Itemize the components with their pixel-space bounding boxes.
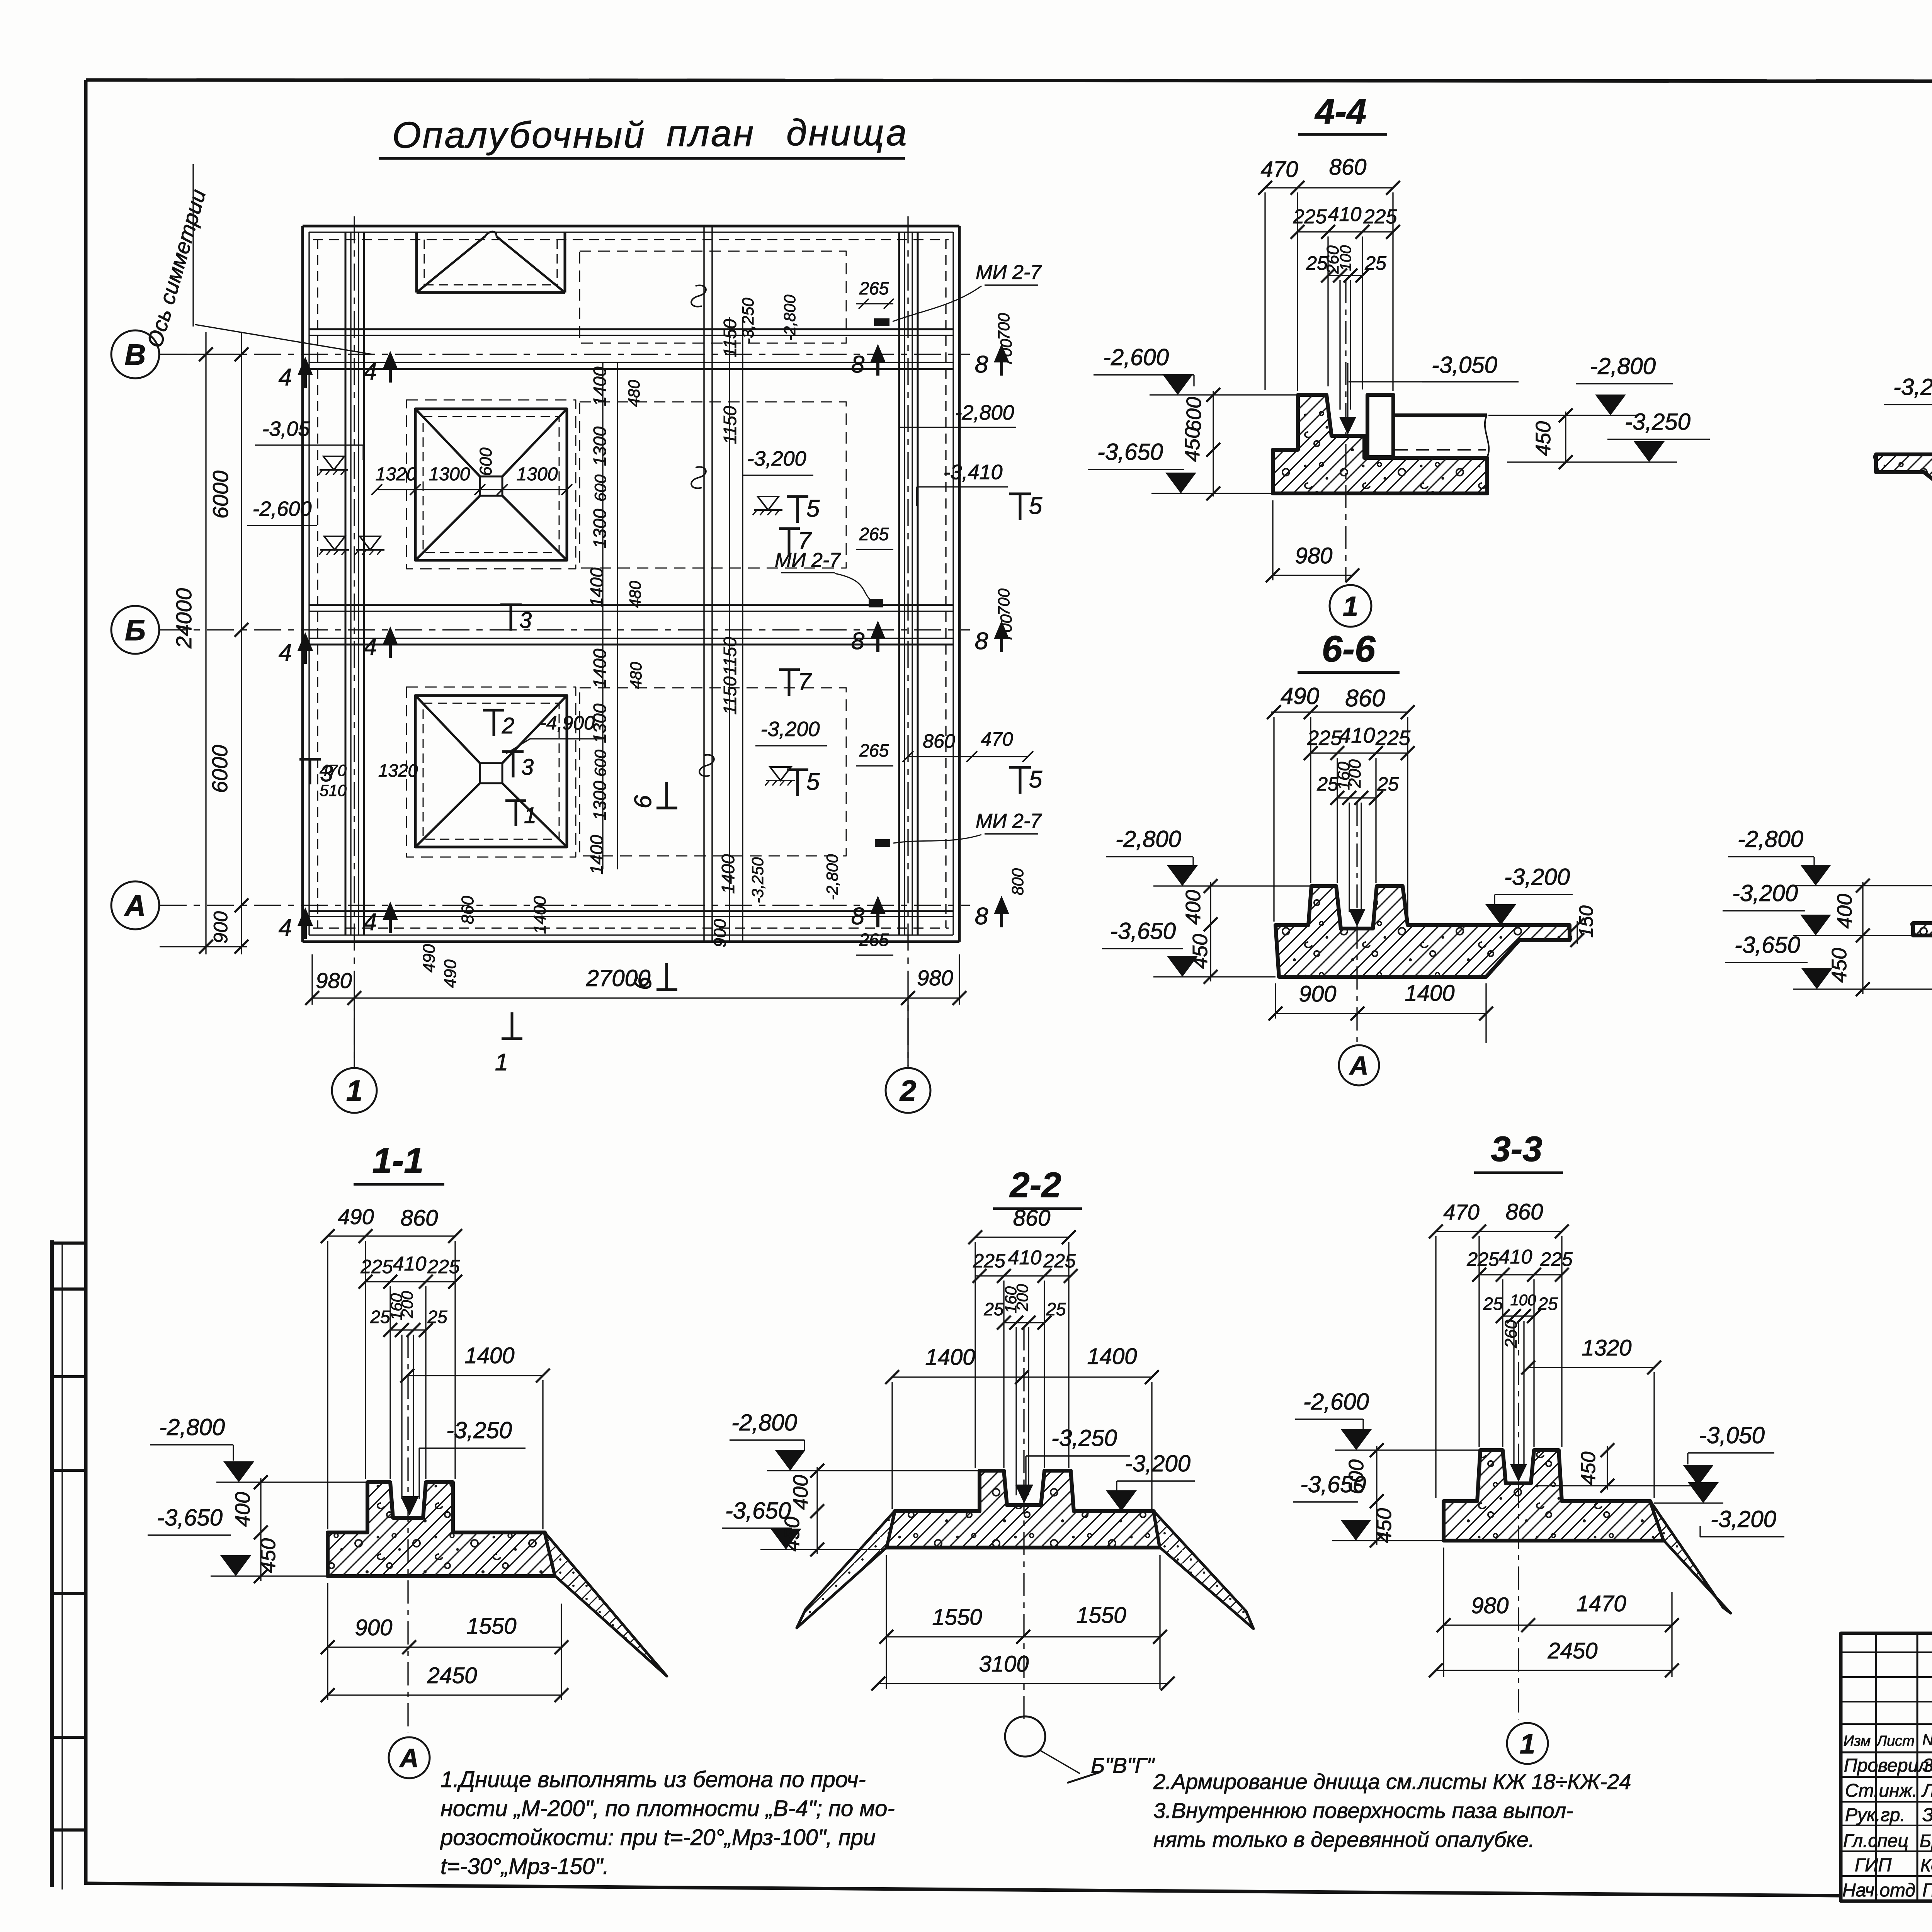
sheet frame — [86, 80, 1932, 82]
svg-text:4: 4 — [279, 915, 292, 941]
svg-text:Рук.гр.: Рук.гр. — [1845, 1805, 1905, 1825]
svg-text:Зантберг: Зантберг — [1922, 1755, 1932, 1776]
svg-text:410: 410 — [1328, 203, 1362, 226]
svg-text:-3,250: -3,250 — [1625, 409, 1690, 435]
section 4-4 precast slab right — [1393, 413, 1487, 417]
svg-text:4: 4 — [364, 634, 377, 660]
section 2-2 axis circle with leader БВГ — [1005, 1716, 1045, 1757]
svg-text:490: 490 — [1281, 683, 1319, 709]
svg-text:-3,410: -3,410 — [943, 461, 1002, 484]
section 3-3 dim 25/100/260/25 — [1503, 1315, 1534, 1316]
svg-text:Опалубочный: Опалубочный — [392, 114, 646, 156]
svg-text:8: 8 — [851, 628, 865, 655]
svg-text:25: 25 — [1377, 773, 1399, 795]
svg-text:400: 400 — [1833, 894, 1856, 929]
plan wall on axis Б — [309, 604, 953, 606]
svg-text:200: 200 — [398, 1291, 416, 1318]
axis circle В — [111, 330, 159, 378]
plan dimension row 1320 1300 600 1300 — [377, 489, 567, 490]
svg-text:Ст.инж.: Ст.инж. — [1845, 1781, 1917, 1801]
svg-text:1320: 1320 — [1582, 1335, 1631, 1361]
section 6-6 bottom dim 900/1400 — [1276, 1013, 1486, 1014]
section 2-2 right apron band — [1154, 1511, 1253, 1629]
plan vertical break line — [703, 226, 705, 942]
svg-text:700: 700 — [995, 588, 1013, 616]
svg-text:225: 225 — [1540, 1248, 1573, 1270]
section 2-2 extension lines — [975, 1242, 976, 1468]
svg-text:4-4: 4-4 — [1315, 92, 1367, 131]
plan outer wall left — [301, 226, 304, 942]
section 3-3 right apron band — [1650, 1501, 1731, 1613]
section 3-3 dim 225/410/225 — [1479, 1274, 1562, 1275]
svg-text:980: 980 — [1295, 543, 1333, 568]
svg-text:6-6: 6-6 — [1322, 628, 1376, 670]
svg-text:225: 225 — [1363, 206, 1398, 228]
svg-text:600: 600 — [591, 474, 609, 502]
section mark 4 at axis Б right — [389, 631, 392, 658]
svg-text:ГИП: ГИП — [1855, 1855, 1891, 1876]
svg-text:1400: 1400 — [464, 1343, 514, 1368]
svg-text:1400: 1400 — [587, 835, 607, 874]
svg-text:6: 6 — [630, 976, 656, 990]
section 4-4 axis circle 1 — [1330, 585, 1371, 627]
section 1-1 left dims 400/450 — [260, 1478, 261, 1581]
svg-text:Гл.спец: Гл.спец — [1843, 1831, 1908, 1851]
section 1-1 dim 25/160/200/25 — [390, 1329, 426, 1330]
svg-text:470: 470 — [981, 728, 1013, 750]
svg-text:МИ 2-7: МИ 2-7 — [976, 261, 1042, 284]
section 4-4 dim 25/260/100/25 — [1328, 275, 1362, 276]
svg-text:7: 7 — [798, 527, 812, 554]
svg-text:4: 4 — [364, 358, 377, 385]
axis circle 2 — [886, 1068, 930, 1113]
svg-text:-2,600: -2,600 — [1103, 344, 1169, 370]
svg-text:900: 900 — [355, 1615, 393, 1640]
section 4-4 dim 225/410/225 — [1298, 231, 1393, 232]
svg-text:450: 450 — [1372, 1508, 1396, 1543]
svg-text:1-1: 1-1 — [372, 1141, 424, 1180]
svg-text:-3,200: -3,200 — [1893, 374, 1932, 400]
section 6-6 dim 490/860 — [1271, 711, 1408, 713]
svg-text:-3,05: -3,05 — [262, 417, 310, 440]
axis 1 line — [354, 216, 355, 1066]
plan wall near axis А — [309, 910, 953, 912]
svg-text:А: А — [124, 889, 146, 922]
section 6-6 concrete hatched — [1276, 886, 1570, 977]
svg-text:490: 490 — [338, 1204, 374, 1229]
svg-text:1400: 1400 — [590, 366, 610, 406]
svg-text:1300: 1300 — [590, 426, 610, 466]
plan outer wall top — [303, 225, 959, 228]
section 6-6 left dims 400/450 — [1210, 882, 1211, 981]
section 5-5 concrete hatched — [1876, 403, 1932, 492]
svg-text:2450: 2450 — [1547, 1638, 1597, 1663]
svg-text:860: 860 — [1013, 1206, 1051, 1231]
svg-text:-2,600: -2,600 — [1303, 1389, 1369, 1415]
svg-text:-4,900: -4,900 — [540, 712, 595, 734]
svg-text:4: 4 — [279, 364, 292, 391]
section 1-1 bottom dim 2450 — [328, 1694, 561, 1696]
plan bottom dimension 980/27000/980 — [312, 997, 959, 998]
svg-text:25: 25 — [1483, 1294, 1503, 1314]
axis Б line — [160, 629, 970, 630]
svg-text:860: 860 — [458, 896, 477, 924]
section 2-2 left dims 400/450 — [816, 1467, 818, 1554]
svg-text:N документа: N документа — [1922, 1731, 1932, 1748]
section 3-3 concrete hatched — [1444, 1450, 1664, 1541]
svg-text:8: 8 — [851, 351, 865, 378]
section mark 8 marks right side — [876, 349, 879, 376]
svg-text:Б: Б — [125, 614, 146, 647]
svg-text:-2,800: -2,800 — [781, 294, 799, 341]
section mark 3 and 1 2 at pits — [299, 758, 321, 761]
svg-text:-3,050: -3,050 — [1432, 352, 1497, 378]
section 6-6 extension lines — [1273, 717, 1274, 922]
section 4-4 concrete footing hatched — [1273, 395, 1487, 493]
svg-text:Козловская: Козловская — [1920, 1855, 1932, 1875]
section 6-6 groove arrow — [1349, 909, 1366, 927]
svg-text:1: 1 — [346, 1075, 362, 1107]
svg-text:480: 480 — [626, 580, 644, 608]
svg-text:3: 3 — [521, 755, 534, 780]
plan ground mark at -3,05 — [323, 456, 344, 470]
svg-text:900: 900 — [711, 919, 730, 947]
svg-text:Изм: Изм — [1844, 1733, 1871, 1749]
section 2-2 centerline — [1023, 1327, 1024, 1721]
svg-text:900: 900 — [210, 911, 231, 944]
svg-text:1400: 1400 — [718, 854, 738, 894]
svg-text:2.Армирование днища см.листы К: 2.Армирование днища см.листы КЖ 18÷КЖ-24 — [1153, 1769, 1631, 1794]
section 3-3 extension lines — [1435, 1236, 1436, 1498]
svg-text:1400: 1400 — [587, 567, 607, 607]
svg-text:600: 600 — [476, 447, 495, 476]
section 7-7 left dims 400/450 — [1862, 882, 1863, 994]
svg-text:1300: 1300 — [517, 464, 558, 485]
svg-text:410: 410 — [1499, 1246, 1532, 1268]
svg-text:25: 25 — [427, 1307, 447, 1327]
section 1-1 centerline — [407, 1335, 408, 1733]
section 1-1 axis circle А — [389, 1737, 430, 1778]
svg-text:-2,800: -2,800 — [1116, 826, 1181, 852]
section 3-3 axis circle 1 — [1507, 1723, 1548, 1764]
svg-text:25: 25 — [1537, 1294, 1558, 1314]
svg-text:1300: 1300 — [590, 509, 610, 548]
svg-text:4: 4 — [364, 909, 377, 935]
svg-text:1320: 1320 — [378, 760, 418, 781]
svg-text:490: 490 — [420, 944, 439, 973]
svg-text:розостойкости: при t=-20°„Мрз-: розостойкости: при t=-20°„Мрз-100", при — [440, 1825, 876, 1850]
title block header row line — [1841, 1752, 1932, 1753]
svg-text:490: 490 — [441, 959, 460, 988]
svg-text:1: 1 — [1343, 591, 1358, 622]
section 3-3 left dims 600/450 — [1376, 1446, 1377, 1545]
title block vertical lines left part — [1875, 1633, 1877, 1901]
section 4-4 right dim 450 — [1565, 412, 1566, 462]
svg-text:-2,600: -2,600 — [252, 497, 311, 520]
svg-text:1470: 1470 — [1576, 1591, 1626, 1616]
svg-text:860: 860 — [1345, 685, 1385, 712]
svg-text:-3,250: -3,250 — [1051, 1425, 1117, 1451]
section mark 4 at axis Б left — [304, 637, 307, 664]
svg-text:5: 5 — [1029, 493, 1043, 519]
section 2-2 groove arrow — [1015, 1485, 1032, 1503]
section mark 5 marks — [787, 495, 808, 498]
svg-text:265: 265 — [859, 930, 889, 950]
svg-text:25: 25 — [1046, 1299, 1066, 1319]
svg-text:днища: днища — [786, 112, 908, 153]
svg-text:А: А — [399, 1743, 418, 1773]
svg-text:7: 7 — [798, 668, 812, 695]
section mark 4 at axis В right of wall 1 — [389, 355, 392, 383]
section 4-4 extension lines — [1264, 192, 1265, 390]
section mark 6 marks — [656, 807, 677, 810]
svg-text:В: В — [125, 338, 146, 371]
svg-text:нять только в деревянной опалу: нять только в деревянной опалубке. — [1153, 1827, 1534, 1852]
svg-text:265: 265 — [859, 524, 889, 544]
svg-text:5: 5 — [806, 495, 820, 522]
section 6-6 dim 25/160/200/25 — [1337, 797, 1376, 798]
svg-text:Проверил: Проверил — [1844, 1755, 1929, 1776]
svg-text:3100: 3100 — [979, 1651, 1029, 1677]
flat pit dashed outline middle right — [580, 402, 846, 568]
left margin fold marks — [50, 1240, 54, 1887]
axis В line — [160, 354, 970, 355]
svg-text:план: план — [667, 113, 755, 154]
svg-text:8: 8 — [975, 628, 988, 655]
axis circle 1 — [332, 1068, 377, 1113]
svg-text:470: 470 — [1443, 1200, 1479, 1224]
svg-text:Нач.отд: Нач.отд — [1842, 1880, 1915, 1901]
svg-text:1400: 1400 — [590, 648, 610, 688]
section 2-2 bottom dim 3100 — [878, 1683, 1168, 1684]
axis 2 line — [907, 216, 908, 1066]
svg-text:-3,250: -3,250 — [748, 857, 767, 903]
section 2-2 bottom dim 1550/1550 — [886, 1636, 1160, 1637]
svg-text:1400: 1400 — [531, 896, 549, 934]
svg-text:1: 1 — [524, 803, 536, 828]
svg-text:450: 450 — [1189, 934, 1212, 969]
svg-text:Зантберг: Зантберг — [1922, 1805, 1932, 1825]
svg-text:265: 265 — [859, 278, 889, 298]
svg-text:860: 860 — [1329, 155, 1367, 180]
svg-text:3.Внутреннюю поверхность паза: 3.Внутреннюю поверхность паза выпол- — [1153, 1798, 1573, 1823]
svg-text:Браславский: Браславский — [1920, 1831, 1932, 1851]
section mark 4 at axis А left — [304, 912, 307, 939]
svg-text:2450: 2450 — [427, 1663, 477, 1688]
section 1-1 sloped apron band — [545, 1532, 667, 1676]
section 2-2 dim 25/160/200/25 — [1004, 1322, 1044, 1323]
svg-text:980: 980 — [316, 968, 352, 993]
svg-text:410: 410 — [393, 1253, 427, 1275]
svg-text:4: 4 — [279, 639, 292, 666]
svg-text:5: 5 — [1029, 766, 1043, 793]
section 1-1 bottom dim 900/1550 — [328, 1646, 561, 1648]
svg-text:-3,200: -3,200 — [1125, 1451, 1190, 1476]
svg-text:225: 225 — [1466, 1248, 1499, 1270]
plan wall on axis В — [309, 328, 953, 330]
svg-text:450: 450 — [781, 1517, 804, 1551]
svg-text:860: 860 — [1506, 1199, 1543, 1225]
svg-text:470: 470 — [1261, 157, 1298, 182]
hopper pit 1 (top, broken) — [415, 232, 418, 293]
svg-text:1320: 1320 — [376, 464, 417, 485]
svg-text:-3,650: -3,650 — [1300, 1471, 1366, 1497]
svg-text:400: 400 — [231, 1492, 254, 1527]
title block outer border — [1841, 1633, 1932, 1901]
svg-text:200: 200 — [1013, 1284, 1031, 1311]
svg-text:-3,200: -3,200 — [1504, 864, 1570, 890]
axis А line — [160, 905, 970, 906]
svg-text:980: 980 — [917, 966, 953, 990]
svg-text:25: 25 — [983, 1299, 1004, 1319]
svg-text:600: 600 — [591, 749, 609, 777]
section 4-4 left dims 600/450 — [1213, 391, 1214, 497]
svg-text:-3,050: -3,050 — [1699, 1422, 1765, 1448]
svg-text:-3,250: -3,250 — [446, 1417, 512, 1443]
svg-text:3-3: 3-3 — [1491, 1129, 1543, 1169]
svg-text:ности „М-200", по плотности „В: ности „М-200", по плотности „В-4"; по мо… — [440, 1796, 895, 1821]
svg-text:225: 225 — [1375, 726, 1411, 750]
svg-text:8: 8 — [975, 903, 988, 930]
svg-text:8: 8 — [851, 903, 865, 930]
svg-text:225: 225 — [1043, 1250, 1076, 1272]
flat pit dashed outline middle left — [406, 400, 576, 569]
svg-text:Ляунзон: Ляунзон — [1921, 1781, 1932, 1801]
flat pit dashed outline bottom right — [580, 688, 846, 856]
section 1-1 dim 225/410/225 — [366, 1281, 455, 1282]
svg-text:450: 450 — [1532, 421, 1555, 456]
svg-text:860: 860 — [923, 730, 955, 752]
svg-text:-3,650: -3,650 — [1110, 918, 1176, 944]
svg-text:900: 900 — [1299, 981, 1337, 1007]
svg-text:980: 980 — [1471, 1593, 1509, 1618]
section 6-6 centerline — [1356, 803, 1357, 1043]
svg-text:-3,650: -3,650 — [1735, 932, 1800, 958]
svg-text:450: 450 — [257, 1538, 280, 1573]
section 6-6 axis circle А — [1339, 1045, 1379, 1085]
section mark 4 at axis В left — [304, 361, 307, 388]
svg-text:860: 860 — [401, 1206, 438, 1231]
svg-text:-3,200: -3,200 — [747, 447, 806, 470]
section 7-7 concrete hatched — [1913, 887, 1932, 989]
svg-text:3: 3 — [320, 760, 333, 786]
svg-text:МИ 2-7: МИ 2-7 — [976, 810, 1042, 832]
svg-text:1300: 1300 — [429, 464, 470, 485]
title block signature row lines — [1841, 1776, 1932, 1778]
section 4-4 groove level arrow -3,050 — [1339, 417, 1356, 435]
section mark 7 marks — [779, 527, 800, 530]
svg-text:100: 100 — [1337, 245, 1354, 271]
section 3-3 centerline — [1518, 1321, 1519, 1719]
section 6-6 dim 225/410/225 — [1311, 752, 1408, 753]
section 2-2 concrete hatched — [886, 1471, 1160, 1548]
section 2-2 dim 1400/1400 — [892, 1376, 1152, 1378]
svg-text:1550: 1550 — [1076, 1603, 1126, 1628]
svg-text:6: 6 — [630, 795, 656, 808]
svg-text:Б"В"Г": Б"В"Г" — [1091, 1753, 1155, 1777]
section 3-3 dim 1320 — [1528, 1367, 1654, 1368]
section 1-1 extension lines — [327, 1241, 328, 1529]
svg-text:2: 2 — [502, 713, 514, 738]
svg-text:6000: 6000 — [208, 471, 233, 519]
svg-text:225: 225 — [973, 1250, 1005, 1272]
svg-text:Лист: Лист — [1876, 1733, 1915, 1749]
svg-text:1300: 1300 — [590, 781, 610, 820]
section 6-6 right dim 150 — [1577, 921, 1578, 944]
section 3-3 dim 470/860 — [1436, 1231, 1562, 1232]
plan outer wall bottom — [303, 940, 959, 943]
svg-text:-3,200: -3,200 — [760, 718, 820, 741]
section mark 1 bottom — [502, 1037, 522, 1040]
svg-text:265: 265 — [859, 740, 889, 760]
svg-text:-3,200: -3,200 — [1732, 880, 1798, 906]
section 3-3 groove arrow — [1510, 1464, 1527, 1482]
plan wall on axis 2 — [898, 232, 900, 935]
section 4-4 bottom dim 980 — [1273, 575, 1352, 576]
section 2-2 left apron band — [797, 1511, 895, 1628]
svg-text:24000: 24000 — [172, 588, 196, 649]
axis circle А — [111, 881, 159, 929]
section 1-1 dim 1400 — [407, 1375, 543, 1376]
svg-text:-3,650: -3,650 — [1097, 439, 1163, 465]
axis circle Б — [111, 606, 159, 654]
plan dimension 24000 — [205, 332, 206, 954]
svg-text:Пичахчи: Пичахчи — [1922, 1880, 1932, 1901]
section 3-3 bottom dim 980/1470 — [1444, 1624, 1672, 1626]
svg-text:1400: 1400 — [925, 1345, 975, 1370]
section 4-4 centerline — [1345, 280, 1346, 582]
flat pit dashed outline lower left — [406, 687, 576, 857]
svg-text:-2,800: -2,800 — [1590, 353, 1656, 379]
svg-text:5: 5 — [806, 769, 820, 795]
svg-text:1: 1 — [1520, 1729, 1535, 1760]
svg-text:-3,200: -3,200 — [1711, 1506, 1776, 1532]
hopper pit 2 (middle) — [415, 409, 567, 560]
svg-text:450: 450 — [1828, 948, 1851, 983]
svg-text:25: 25 — [1364, 252, 1386, 274]
section 1-1 concrete hatched — [328, 1482, 555, 1576]
section 1-1 dim 490/860 — [328, 1235, 455, 1236]
svg-text:1550: 1550 — [932, 1605, 982, 1630]
svg-text:450: 450 — [1181, 427, 1204, 462]
section 3-3 bottom dim 2450 — [1436, 1670, 1672, 1671]
svg-text:1400: 1400 — [1087, 1344, 1137, 1369]
flat pit dashed outline top right — [580, 251, 846, 343]
svg-text:410: 410 — [1008, 1247, 1042, 1269]
svg-text:225: 225 — [1307, 726, 1342, 750]
svg-text:400: 400 — [1182, 890, 1205, 925]
section 3-3 dim 450 at stub — [1607, 1446, 1608, 1490]
svg-text:6000: 6000 — [207, 745, 232, 793]
svg-text:-2,800: -2,800 — [955, 401, 1014, 424]
svg-text:450: 450 — [1577, 1452, 1600, 1485]
hopper pit 3 (bottom) — [415, 696, 567, 847]
plan wall on axis 1 — [345, 232, 347, 935]
svg-text:1: 1 — [495, 1049, 508, 1076]
svg-text:150: 150 — [1575, 905, 1597, 938]
section 4-4 wall stub white — [1367, 395, 1393, 457]
svg-text:100: 100 — [1510, 1292, 1536, 1309]
section mark 4 at axis А right — [389, 906, 392, 933]
svg-text:-2,800: -2,800 — [823, 854, 841, 900]
svg-text:700: 700 — [995, 313, 1013, 340]
svg-text:480: 480 — [625, 379, 643, 407]
svg-text:-3,650: -3,650 — [157, 1505, 223, 1531]
svg-text:-2,800: -2,800 — [159, 1414, 225, 1440]
svg-text:8: 8 — [975, 351, 988, 378]
section 1-1 groove arrow — [401, 1498, 418, 1515]
svg-text:410: 410 — [1339, 723, 1375, 747]
